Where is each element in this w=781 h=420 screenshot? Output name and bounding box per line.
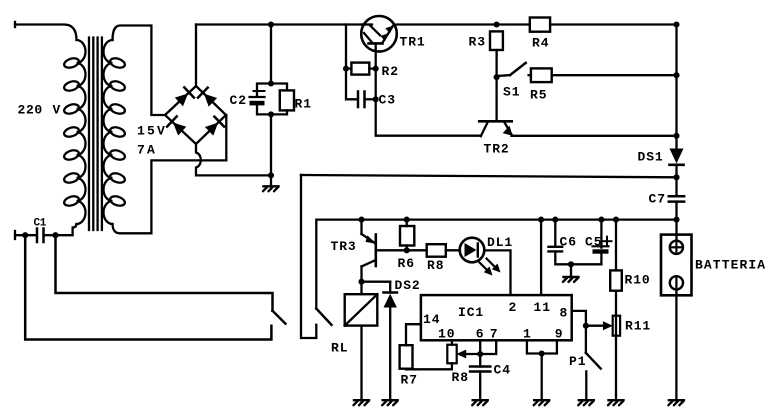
- potentiometer R11: [613, 316, 620, 401]
- junction rail battery: [673, 217, 679, 223]
- wire mains outer L to switch contact: [25, 235, 271, 339]
- resistor R1: [271, 84, 294, 115]
- svg-text:220: 220: [18, 103, 43, 118]
- wire charge line down to relay contact: [301, 175, 316, 338]
- svg-text:S1: S1: [503, 85, 520, 100]
- svg-text:14: 14: [423, 312, 440, 327]
- switch relay blade: [316, 309, 331, 325]
- ground C4: [472, 400, 488, 405]
- junction rail R10: [613, 217, 619, 223]
- resistor R5: [529, 68, 677, 82]
- wire bridge top to rail: [195, 25, 197, 87]
- svg-text:C5: C5: [585, 235, 602, 250]
- wire pin 7 down: [480, 340, 496, 354]
- junction C2R1 bottom: [268, 111, 274, 117]
- diode DS1: [670, 149, 684, 165]
- wire pin19 to ground: [541, 354, 543, 401]
- diode bridge 15V 7A: [165, 86, 226, 144]
- ground pins 1 9: [534, 400, 550, 405]
- ground DS2: [382, 400, 398, 405]
- svg-text:2: 2: [509, 300, 518, 315]
- junction rail R6: [404, 217, 410, 223]
- wire rail to IC pin 11: [540, 220, 542, 296]
- wire middle rail from relay contact: [316, 220, 676, 309]
- resistor R3: [490, 31, 503, 77]
- wire C2R1 branch vertical: [270, 25, 272, 84]
- junction pin6 node: [477, 351, 483, 357]
- ground RL: [354, 400, 370, 405]
- svg-text:C6: C6: [560, 235, 577, 250]
- svg-text:15V: 15V: [137, 124, 167, 139]
- junction top rail at C2 branch: [268, 21, 274, 27]
- junction rail C6: [552, 217, 558, 223]
- svg-text:R8: R8: [427, 258, 444, 273]
- svg-text:DS2: DS2: [395, 278, 421, 293]
- wire pins 1 and 9 join: [527, 340, 557, 353]
- svg-text:R5: R5: [530, 88, 547, 103]
- wire R2C3 left branch: [346, 25, 357, 100]
- svg-text:DL1: DL1: [487, 235, 513, 250]
- wire bridge bottom with hop to ground line: [196, 144, 268, 175]
- junction rail TR2 emitter: [673, 133, 679, 139]
- junction ground node: [268, 172, 274, 178]
- resistor R2: [346, 63, 376, 75]
- ground R11: [608, 400, 624, 405]
- capacitor C2: [250, 84, 272, 115]
- ground at C2R1: [263, 175, 279, 191]
- wire pin 6 down: [479, 340, 481, 354]
- capacitor C4: [470, 354, 490, 400]
- svg-text:R10: R10: [625, 273, 651, 288]
- diode DS2: [384, 282, 397, 401]
- junction pin19 node: [539, 350, 545, 356]
- wire mains inner L to switch: [56, 235, 273, 311]
- svg-text:C4: C4: [494, 363, 511, 378]
- svg-text:IC1: IC1: [458, 305, 484, 320]
- svg-text:BATTERIA: BATTERIA: [695, 258, 766, 273]
- junction R2 left: [343, 66, 349, 72]
- junction S1 node: [494, 74, 500, 80]
- resistor R7: [400, 345, 413, 369]
- junction pin8 node: [583, 323, 589, 329]
- capacitor C1: [15, 229, 56, 243]
- potentiometer P1: [586, 326, 601, 401]
- svg-text:C7: C7: [649, 192, 666, 207]
- wire battery to ground: [675, 290, 677, 400]
- wire pin 10 to R8 trimmer: [451, 340, 453, 344]
- wire C7 to battery: [675, 202, 677, 240]
- svg-text:7A: 7A: [137, 143, 157, 158]
- svg-text:R3: R3: [469, 35, 486, 50]
- svg-text:C3: C3: [379, 93, 396, 108]
- relay coil RL: [345, 294, 378, 400]
- svg-text:P1: P1: [569, 354, 586, 369]
- junction rail pin11: [538, 217, 544, 223]
- transistor TR2: [479, 77, 512, 136]
- svg-text:DS1: DS1: [638, 150, 664, 165]
- capacitor C7: [669, 196, 684, 201]
- junction right rail R5: [673, 72, 679, 78]
- battery BATTERIA: [661, 235, 692, 296]
- switch S1: [497, 63, 526, 76]
- wire right rail DS1 to C7: [675, 165, 677, 196]
- wire 220V top input: [15, 22, 77, 40]
- IC U1 box: [421, 295, 572, 340]
- junction R2 right: [373, 66, 379, 72]
- resistor R4: [530, 18, 550, 32]
- wire TR1 base stem: [376, 43, 481, 135]
- svg-text:R7: R7: [401, 373, 418, 388]
- svg-text:C2: C2: [230, 93, 247, 108]
- resistor R8 top: [427, 244, 446, 257]
- svg-text:R2: R2: [382, 64, 399, 79]
- svg-text:R8: R8: [452, 370, 469, 385]
- transformer T primary winding: [63, 40, 86, 224]
- junction C2R1 top: [268, 80, 274, 86]
- LED DL1: [460, 238, 501, 276]
- svg-text:TR3: TR3: [331, 239, 357, 254]
- svg-text:11: 11: [534, 300, 551, 315]
- wire pin 14 to R7: [406, 324, 421, 345]
- junction R6 base line: [404, 247, 410, 253]
- wire secondary top to bridge left corner: [113, 26, 166, 116]
- svg-text:RL: RL: [331, 341, 348, 356]
- junction TR3 collector DS2: [358, 279, 364, 285]
- junction rail TR3: [358, 217, 364, 223]
- resistor R6: [400, 220, 414, 251]
- capacitor C5: [571, 220, 612, 265]
- svg-text:C1: C1: [34, 218, 47, 230]
- junction top rail at R3: [494, 21, 500, 27]
- wire R7 to R8 trimmer: [406, 363, 452, 369]
- capacitor C3: [358, 92, 376, 108]
- ground battery: [668, 400, 684, 405]
- wire top rail right of TR1: [397, 23, 530, 25]
- resistor R10: [610, 220, 622, 316]
- svg-text:R6: R6: [398, 256, 415, 271]
- svg-text:TR1: TR1: [400, 35, 426, 50]
- wire wiper arrow to R8: [456, 350, 480, 359]
- wire R8 to DL1: [446, 249, 460, 251]
- ground P1: [578, 400, 594, 405]
- switch mains blade: [273, 311, 286, 324]
- transistor TR3: [362, 220, 376, 295]
- wire TR2 emitter to right rail: [512, 135, 677, 137]
- wire TR3 base line: [376, 249, 427, 251]
- wire ground line to right rail: [301, 175, 677, 177]
- capacitor C6: [549, 220, 572, 265]
- svg-text:R4: R4: [532, 36, 549, 51]
- wire TR3 to DS2: [362, 281, 391, 283]
- junction C3 right: [373, 96, 379, 102]
- junction C6 C5 ground: [568, 261, 574, 267]
- transistor TR1: [361, 16, 397, 52]
- junction C1 left: [22, 232, 28, 238]
- trimmer R8: [447, 345, 456, 364]
- ground C6 C5: [563, 264, 579, 282]
- svg-text:R1: R1: [295, 96, 312, 111]
- junction rail C5: [598, 217, 604, 223]
- wire C2R1 down to ground line: [270, 114, 272, 175]
- wire pin 8 to wiper node: [572, 311, 586, 326]
- junction top right corner: [673, 21, 679, 27]
- svg-text:TR2: TR2: [484, 142, 510, 157]
- wire right rail upper: [675, 25, 677, 148]
- wire DL1 to IC pin 2: [484, 250, 510, 295]
- svg-text:R11: R11: [625, 319, 651, 334]
- junction C1 right: [52, 232, 58, 238]
- wire top rail left of TR1: [196, 23, 362, 25]
- svg-text:8: 8: [560, 306, 569, 321]
- wire wiper arrow to R11: [586, 321, 613, 330]
- transformer T core: [89, 38, 102, 231]
- svg-text:V: V: [53, 103, 62, 118]
- wire secondary bottom to bridge right corner: [113, 115, 227, 233]
- wire top rail right of R4: [550, 23, 676, 25]
- transformer T secondary winding: [104, 40, 127, 224]
- junction rail DS1 ground line: [673, 174, 679, 180]
- wire primary bottom to C1 node: [56, 224, 77, 235]
